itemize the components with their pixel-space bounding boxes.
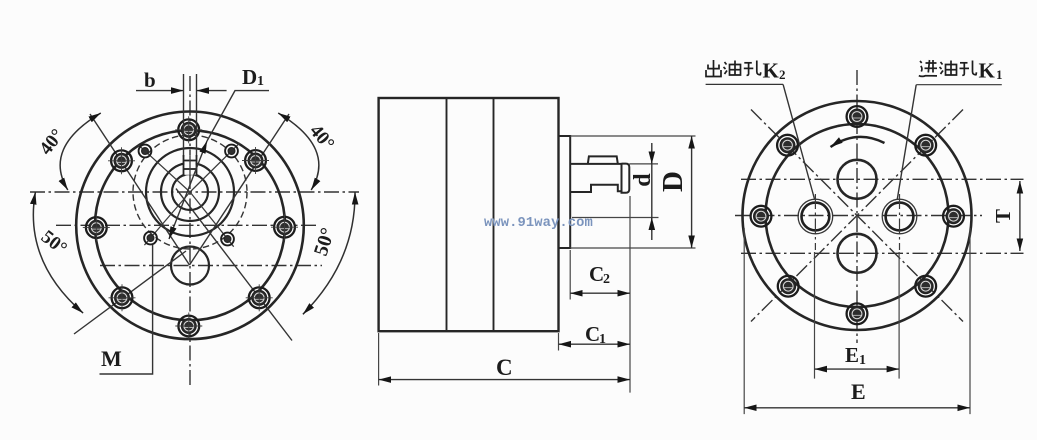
bolt hole upper-left	[108, 147, 135, 174]
svg-text:1: 1	[859, 353, 866, 368]
body circle	[95, 130, 285, 320]
left view: mounting flange face	[30, 65, 359, 388]
K2 leader	[783, 84, 814, 199]
40 deg arc right	[278, 113, 319, 190]
bolt hole bottom	[175, 313, 202, 340]
label K2 outlet: CHU YOU KONG K2	[706, 59, 786, 83]
port K2 (left)	[798, 194, 833, 250]
bolt hole top (right view)	[847, 106, 868, 127]
dimension C	[379, 333, 630, 386]
middle view: side profile	[379, 98, 696, 393]
svg-text:C: C	[589, 262, 604, 286]
outer circle	[743, 101, 972, 330]
bolt hole upper-right	[242, 147, 269, 174]
dimension T	[991, 181, 1020, 251]
upper gear circle	[838, 160, 877, 199]
svg-text:2: 2	[779, 67, 786, 82]
svg-text:C: C	[585, 322, 600, 346]
svg-text:d: d	[630, 173, 656, 187]
50 deg arc right	[303, 192, 355, 314]
bolt hole upper-left (right view)	[777, 135, 798, 156]
D extension top	[570, 135, 695, 137]
svg-text:K: K	[979, 59, 996, 83]
50 deg arc left	[33, 192, 83, 313]
D extension bottom	[570, 247, 695, 249]
svg-text:50°: 50°	[310, 225, 340, 258]
d extension bottom	[572, 217, 659, 219]
svg-text:K: K	[763, 59, 780, 83]
shaft boss circle	[161, 163, 219, 221]
screw hole upper-left	[139, 145, 152, 158]
svg-text:M: M	[101, 346, 122, 371]
dimension D1	[169, 65, 269, 239]
svg-text:T: T	[991, 209, 1015, 223]
bolt hole top	[175, 116, 202, 143]
right view: rear face with ports	[706, 59, 1024, 415]
bolt hole lower-left	[109, 284, 136, 311]
gear centerline lower / T extension	[741, 252, 1024, 254]
label K1 inlet: JIN YOU KONG K1	[919, 59, 1003, 83]
bolt hole right (right view)	[943, 206, 964, 227]
svg-text:1: 1	[996, 67, 1003, 82]
vertical centerline	[189, 76, 191, 388]
keyway slot and b extension lines	[184, 74, 197, 177]
radial line lower-left screw	[144, 192, 190, 245]
dimension D	[657, 136, 692, 248]
svg-text:1: 1	[599, 332, 606, 347]
horizontal centerline through shaft	[30, 191, 359, 193]
internal joint line 1	[446, 98, 448, 331]
pump body rectangle	[379, 98, 559, 331]
shaft bottom with keyseat step	[570, 185, 621, 192]
diagonal centerline 1	[751, 110, 963, 322]
lower gear bore circle	[171, 247, 209, 285]
shaft circle	[172, 174, 208, 210]
screw hole upper-right	[225, 145, 238, 158]
bolt hole bottom (right view)	[847, 303, 868, 324]
svg-text:E: E	[845, 343, 859, 367]
bolt hole right	[271, 214, 298, 241]
vertical centerline	[856, 70, 858, 343]
d extension top	[629, 163, 658, 165]
radial line lower-left bolt	[74, 251, 186, 334]
svg-text:40°: 40°	[35, 125, 68, 159]
lower gear circle	[838, 234, 877, 273]
dimension E1	[815, 252, 900, 379]
horizontal centerline through flange bolts	[56, 224, 319, 226]
radial line upper-right bolt	[190, 114, 290, 265]
screw hole lower-right	[221, 233, 234, 246]
shaft outline	[570, 163, 621, 165]
dashed screw-hole circle D1	[133, 135, 247, 249]
svg-text:b: b	[144, 68, 156, 92]
svg-text:1: 1	[257, 74, 264, 89]
screw hole lower-left M	[144, 232, 157, 245]
hub circle	[146, 148, 234, 236]
svg-text:50°: 50°	[37, 226, 71, 259]
svg-text:C: C	[496, 355, 513, 380]
radial line upper-right screw	[190, 143, 240, 192]
svg-text:www.91way.com: www.91way.com	[484, 216, 593, 231]
radial line lower-right screw	[190, 192, 234, 247]
key on shaft	[588, 156, 618, 164]
bolt hole left (right view)	[751, 206, 772, 227]
inner circle	[766, 124, 949, 307]
svg-text:2: 2	[603, 272, 610, 287]
bolt hole lower-left (right view)	[778, 276, 799, 297]
svg-text:E: E	[851, 379, 866, 404]
D1 diameter arrows across dashed circle	[169, 141, 207, 239]
diagonal centerline 2	[751, 110, 963, 322]
gear centerline upper / T extension	[741, 178, 1024, 180]
dimension C2	[570, 196, 630, 393]
horizontal centerline	[735, 215, 982, 217]
svg-text:40°: 40°	[305, 121, 338, 155]
rotation direction arrow	[831, 137, 885, 147]
mounting plate	[559, 136, 571, 248]
svg-text:D: D	[242, 65, 257, 89]
flange outer circle	[76, 112, 304, 340]
radial line lower-right bolt	[176, 189, 292, 341]
bolt hole upper-right (right view)	[915, 135, 936, 156]
dimension C1	[559, 322, 631, 351]
shaft end cap	[622, 164, 630, 193]
port K1 (right)	[882, 194, 917, 250]
bolt hole lower-right	[246, 284, 273, 311]
horizontal centerline through lower gear	[100, 265, 322, 267]
radial line upper-left screw	[138, 145, 190, 192]
bolt hole lower-right (right view)	[915, 276, 936, 297]
radial line upper-left bolt	[90, 114, 190, 265]
K1 leader	[897, 85, 916, 199]
40 deg arc left	[60, 113, 101, 190]
svg-text:D: D	[657, 171, 689, 192]
dimension E	[744, 228, 970, 414]
dimension d	[630, 143, 656, 240]
dimension b	[136, 68, 227, 92]
bolt hole left	[83, 214, 110, 241]
thread label M and leader	[100, 245, 153, 374]
internal joint line 2	[493, 98, 495, 331]
